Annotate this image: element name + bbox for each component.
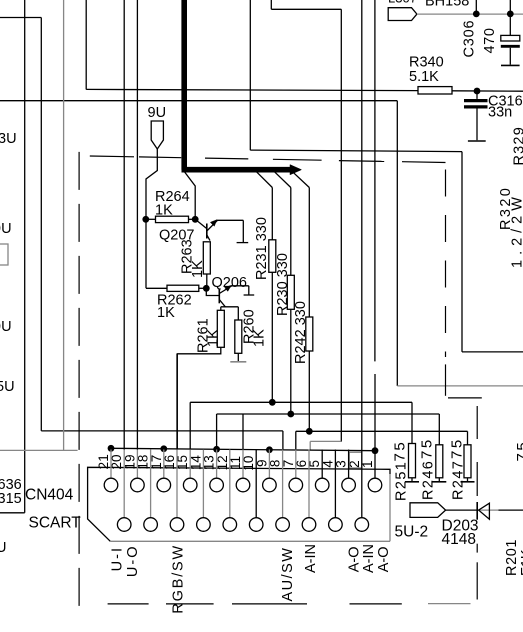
wire stub above BH158 net 2 xyxy=(509,0,511,14)
wire line1 drop to R251 xyxy=(411,402,413,443)
dashed boundary step horizontal xyxy=(448,397,482,399)
dashed boundary right vertical upper xyxy=(445,170,447,358)
component box (cut, C636/R315 area) right edge xyxy=(24,0,26,513)
svg-text:A-O: A-O xyxy=(376,547,392,573)
transistor Q206 base lead xyxy=(206,288,219,295)
SCART connector body bottom edge (gray) xyxy=(110,540,390,542)
pin 8 wire to socket xyxy=(282,450,284,518)
svg-text:A-IN: A-IN xyxy=(303,544,319,573)
svg-text:R246: R246 xyxy=(421,460,437,500)
pin 12 socket circle xyxy=(223,518,237,532)
wire bus corner to R264 node xyxy=(184,171,196,220)
svg-text:9U: 9U xyxy=(148,105,167,121)
dashed boundary top segment 1 xyxy=(90,155,134,158)
pin 14 wire to socket xyxy=(202,450,204,518)
node dot pin 17 node xyxy=(160,445,167,452)
wire horizontal y89.5 right of R340 xyxy=(452,90,523,92)
wire R261 bottom xyxy=(177,347,221,449)
wire R264 left lead xyxy=(146,218,156,220)
node dot fan2 on line2 xyxy=(287,411,294,418)
pin 12 wire to socket xyxy=(229,450,231,518)
pin 13 wire to socket xyxy=(216,450,218,479)
wire Q206 emitter drop xyxy=(248,286,250,295)
wire Q206 emitter horizontal xyxy=(231,285,249,287)
resistor R264 xyxy=(156,216,189,222)
wire R247 bottom xyxy=(467,478,469,482)
pin 9 socket circle xyxy=(263,478,277,492)
dashed boundary top segment 5 xyxy=(339,160,384,163)
wire L-net vertical x462 xyxy=(461,152,463,352)
dashed boundary bottom segment 4 xyxy=(350,603,402,605)
pin 21 socket circle xyxy=(104,478,118,492)
resistor R242 xyxy=(306,317,313,351)
wire fan1 diagonal xyxy=(256,171,273,188)
node dot fan1 on line1 xyxy=(269,399,276,406)
wire R246 bottom xyxy=(438,478,440,482)
pin 6 wire to socket xyxy=(308,450,310,518)
wire horizontal y431 rail left xyxy=(41,430,283,432)
svg-text:A-IN: A-IN xyxy=(361,544,377,573)
ground bar R247 xyxy=(461,481,475,483)
wire R247 drop xyxy=(467,431,469,445)
pin 18 wire to socket xyxy=(150,450,152,518)
wire pin20 from top xyxy=(123,0,125,450)
wire 5V-2 to diode xyxy=(446,509,478,511)
gray box around pin 2 number xyxy=(349,452,362,468)
wire fan3 diagonal xyxy=(292,171,310,188)
transistor Q207 emitter with arrow xyxy=(207,220,218,231)
transistor Q207 emitter arrowhead xyxy=(210,220,217,227)
svg-text:C306: C306 xyxy=(462,20,478,58)
dashed boundary bottom gray segment xyxy=(428,603,471,605)
transistor Q207 base lead xyxy=(195,219,207,228)
pin 11 socket circle xyxy=(236,478,250,492)
svg-text:5.1K: 5.1K xyxy=(409,69,439,85)
dashed boundary top segment 4 xyxy=(273,158,322,161)
ground bar C316 xyxy=(468,140,486,142)
svg-text:3U: 3U xyxy=(0,131,17,147)
pin 5 wire to socket xyxy=(321,450,323,479)
svg-text:U-I: U-I xyxy=(110,546,126,571)
resistor R262 xyxy=(167,285,199,291)
wire pin2 vertical from top xyxy=(361,0,363,450)
svg-text:RGB/SW: RGB/SW xyxy=(171,544,187,614)
wire C316 bottom lead xyxy=(476,109,478,141)
ground bar R251 xyxy=(405,481,419,483)
dashed boundary bottom segment 3 xyxy=(232,603,307,605)
pin 15 socket circle xyxy=(183,478,197,492)
wire rail drop to pin7 xyxy=(295,431,297,450)
pin 17 wire to socket xyxy=(163,450,165,479)
pin 14 socket circle xyxy=(197,518,211,532)
node dot fan3 on y431 line xyxy=(306,428,313,435)
node dot R264 right xyxy=(192,216,199,223)
wire line1 y402 xyxy=(190,401,412,403)
svg-text:33n: 33n xyxy=(488,105,512,121)
wire Q207 emitter horizontal xyxy=(217,219,244,221)
resistor R246 xyxy=(436,445,443,478)
capacitor C306 plus plate xyxy=(501,35,520,41)
pin 8 socket circle xyxy=(276,518,290,532)
gray wire jog stub down xyxy=(309,441,311,450)
svg-text:R231 330: R231 330 xyxy=(254,217,270,280)
pin 15 wire to socket xyxy=(189,450,191,479)
wire horizontal y431 rail right xyxy=(296,430,468,432)
wire R263 to Q206 node xyxy=(206,274,208,288)
wire fan3 vertical lower xyxy=(308,351,310,431)
gray stub box (cut) at left xyxy=(0,244,8,265)
resistor R340 xyxy=(418,87,452,94)
node dot R264 left xyxy=(142,216,149,223)
diode D203 cathode bar xyxy=(476,502,478,520)
svg-text:U-O: U-O xyxy=(125,545,141,578)
wire 9V down xyxy=(146,149,157,288)
wire line2 drop to pin13 xyxy=(216,414,218,450)
pin 1 wire to socket xyxy=(374,450,376,479)
wire fan2 vertical lower xyxy=(290,309,292,413)
svg-text:75: 75 xyxy=(514,440,523,462)
pin 10 socket circle xyxy=(249,518,263,532)
pin 20 wire to socket xyxy=(123,450,125,518)
svg-text:75: 75 xyxy=(449,437,466,459)
pin 9 wire to socket xyxy=(268,450,270,479)
pin 13 socket circle xyxy=(210,478,224,492)
resistor R230 xyxy=(287,275,294,309)
dashed boundary top segment 2 xyxy=(139,156,181,159)
thick bus horizontal xyxy=(182,167,291,173)
capacitor C316 plate 2 xyxy=(464,105,488,108)
wire line2 y415 xyxy=(217,413,440,415)
wire rail drop to pin8 xyxy=(282,431,284,450)
svg-text:470: 470 xyxy=(482,28,498,54)
capacitor C306 minus plate xyxy=(501,45,520,48)
node dot pin 13 node xyxy=(213,446,220,453)
svg-text:9U: 9U xyxy=(0,319,12,335)
wire line1 drop to pin15 xyxy=(189,402,191,449)
node dot BH158 net 2 xyxy=(507,11,514,18)
pin 19 wire to socket xyxy=(136,450,138,479)
wire C316 top lead xyxy=(476,91,478,99)
wire L-net horizontal y352 to right xyxy=(462,351,523,353)
node dot Q206 base xyxy=(203,285,210,292)
wire R262 left lead xyxy=(146,287,167,289)
svg-text:R251: R251 xyxy=(394,461,410,501)
resistor R261 xyxy=(217,310,224,347)
svg-text:L307: L307 xyxy=(388,0,417,6)
resistor R251 xyxy=(409,444,416,478)
svg-text:5U-2: 5U-2 xyxy=(395,524,429,541)
svg-text:315: 315 xyxy=(0,491,22,507)
wire pin19 from top xyxy=(136,0,138,450)
wire vertical x375 from top xyxy=(374,0,376,361)
9V supply symbol xyxy=(151,121,163,149)
pin 16 wire to socket xyxy=(176,450,178,518)
dashed boundary right vertical lower segment 1 xyxy=(476,406,478,439)
thick bus vertical xyxy=(181,0,187,170)
pin 7 wire to socket xyxy=(295,450,297,479)
wire fan1 vertical lower xyxy=(271,272,273,402)
terminal bar Q207 xyxy=(237,242,249,244)
resistor R247 xyxy=(464,445,471,478)
wire vertical x86 xyxy=(85,0,87,90)
wire horizontal y89.5 to R340 xyxy=(86,89,418,90)
wire R264 right lead xyxy=(189,218,196,220)
ground bar R260 (gray) xyxy=(230,361,246,363)
net tag 5V-2 xyxy=(410,503,446,518)
wire fan1 vertical upper xyxy=(271,188,273,240)
node dot C316 top xyxy=(474,88,481,95)
pin 11 wire to socket xyxy=(242,450,244,479)
pin 18 socket circle xyxy=(144,518,158,532)
ground bar C306 xyxy=(501,64,520,66)
wire diode to right edge xyxy=(499,509,523,511)
wire vertical x397 xyxy=(396,101,398,386)
dashed boundary bottom segment 1 xyxy=(108,603,149,605)
pin 1 socket circle xyxy=(368,478,382,492)
gray wire jog horizontal to pin6 xyxy=(310,440,341,442)
pin 10 wire to socket xyxy=(255,450,257,518)
svg-text:R329: R329 xyxy=(512,126,523,165)
SCART connector body outline xyxy=(88,467,390,541)
svg-text:F1K: F1K xyxy=(519,549,523,576)
wire to R261 top xyxy=(220,307,222,311)
wire Q207 emitter drop xyxy=(242,220,244,242)
component box bottom edge xyxy=(0,512,25,514)
svg-text:U: U xyxy=(0,540,6,556)
transistor Q207 collector lead xyxy=(207,235,210,241)
pin 20 socket circle xyxy=(117,518,131,532)
svg-text:R201: R201 xyxy=(504,539,520,576)
node dot pin 9 node xyxy=(266,446,273,453)
wire L-net horizontal y150 xyxy=(250,150,462,152)
pin 5 socket circle xyxy=(315,478,329,492)
dashed boundary right vertical upper last dash xyxy=(445,364,447,395)
svg-text:1K: 1K xyxy=(157,305,175,321)
terminal bar Q206 xyxy=(244,294,255,296)
wire from left to vertical bus xyxy=(0,17,41,19)
wire L-net vertical x250 xyxy=(249,0,251,150)
svg-text:75: 75 xyxy=(392,440,409,462)
pin 3 wire to socket xyxy=(348,450,350,479)
resistor R263 xyxy=(203,242,210,274)
svg-text:1.2/2W: 1.2/2W xyxy=(510,192,523,268)
dashed boundary top segment 6 xyxy=(402,161,446,164)
gray wire horizontal y450 xyxy=(0,449,78,451)
svg-text:SCART: SCART xyxy=(29,515,82,532)
pin 2 socket circle xyxy=(355,518,369,532)
svg-text:75: 75 xyxy=(419,437,436,459)
pin 7 socket circle xyxy=(289,478,303,492)
pin 2 wire to socket xyxy=(361,450,363,518)
wire top L vertical x271 xyxy=(270,0,272,9)
wire top L horizontal y9 xyxy=(271,8,341,10)
pin 4 socket circle xyxy=(329,518,343,532)
wire SCART contact strip xyxy=(111,448,375,450)
thick bus arrow head xyxy=(290,165,302,175)
wire line2 drop to pin11 xyxy=(242,414,244,450)
diode D203 triangle xyxy=(479,503,490,519)
pin 19 socket circle xyxy=(131,478,145,492)
wire fan3 vertical upper xyxy=(308,188,310,318)
net tag BH158 xyxy=(388,8,417,21)
node dot BH158 net 1 xyxy=(473,11,480,18)
svg-text:BH158: BH158 xyxy=(425,0,469,10)
gray wire through diode xyxy=(477,509,498,511)
wire C306 top lead xyxy=(509,14,511,35)
dashed boundary right vertical lower segment 4 xyxy=(476,562,478,599)
wire line2 drop to R246 xyxy=(438,414,440,445)
pin 4 wire to socket xyxy=(334,450,336,518)
gray wire vertical x64 xyxy=(63,0,65,450)
wire pin1 vertical xyxy=(374,374,376,450)
wire R251 bottom xyxy=(411,478,413,482)
SCART connector body right edge (gray) xyxy=(389,474,391,541)
wire C306 bottom lead xyxy=(509,48,511,65)
resistor R231 xyxy=(269,240,276,272)
node dot pin 1 node xyxy=(372,447,379,454)
svg-text:AU/SW: AU/SW xyxy=(280,547,296,602)
pin 17 socket circle xyxy=(157,478,171,492)
pin 16 socket circle xyxy=(170,518,184,532)
dashed boundary top segment 3 xyxy=(205,157,248,160)
wire collector node horizontal xyxy=(221,306,239,308)
svg-text:9U: 9U xyxy=(0,221,12,237)
transistor Q206 base bar xyxy=(218,289,220,304)
svg-text:1K: 1K xyxy=(252,329,268,347)
transistor Q206 collector lead xyxy=(219,300,225,307)
transistor Q206 emitter xyxy=(219,286,232,294)
wire vertical x41 down to SCART bus xyxy=(40,18,42,431)
gray wire BH158 net xyxy=(417,13,523,15)
pin 21 wire to socket xyxy=(110,450,112,479)
wire pin16 drop xyxy=(176,354,178,450)
wire fan2 vertical upper xyxy=(290,188,292,276)
dashed boundary left vertical xyxy=(78,152,80,608)
svg-text:4148: 4148 xyxy=(442,531,476,548)
pin 6 socket circle xyxy=(302,518,316,532)
svg-text:CN404: CN404 xyxy=(25,487,74,504)
wire stub to BH158 pin xyxy=(475,0,477,14)
capacitor C316 plate 1 xyxy=(464,99,488,102)
dashed boundary bottom segment 2 xyxy=(166,603,214,605)
dashed boundary right vertical lower segment 3 xyxy=(476,544,478,553)
wire to R260 top xyxy=(237,307,239,320)
pin 3 socket circle xyxy=(342,478,356,492)
dashed boundary right vertical lower segment 2 xyxy=(476,462,478,496)
gray wire horizontal y386 to right edge xyxy=(397,385,523,387)
wire fan2 diagonal xyxy=(274,171,291,188)
wire R260 bottom xyxy=(237,353,239,361)
transistor Q206 emitter arrowhead xyxy=(225,285,232,291)
transistor Q207 base bar xyxy=(206,224,208,239)
resistor R260 xyxy=(235,320,242,353)
svg-text:5U: 5U xyxy=(0,379,15,395)
wire R262 right lead xyxy=(199,287,207,289)
ground bar R246 xyxy=(432,481,446,483)
wire horizontal y101 xyxy=(0,100,397,102)
wire vertical x341 long xyxy=(340,9,342,441)
node dot pin 21 node xyxy=(108,445,115,452)
